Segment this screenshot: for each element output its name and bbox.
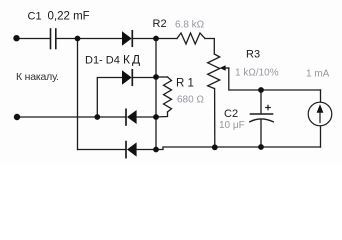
wire: row C junction to diode D3 xyxy=(97,116,126,118)
wire: vertical bus at x=156 from row A to bottom rail xyxy=(155,39,157,150)
capacitor C2 top plate xyxy=(251,113,273,115)
wire: D4 to bus bottom junction xyxy=(137,149,156,151)
wire: J1 to diode D1 xyxy=(78,38,123,40)
svg-text:D1- D4: D1- D4 xyxy=(85,55,120,67)
wire: C2 top lead xyxy=(260,90,262,114)
potentiometer R3 body xyxy=(208,54,220,89)
junction row B / bus xyxy=(153,74,159,80)
resistor R1 bottom stub to row C junction xyxy=(156,112,168,117)
diode D3 xyxy=(126,109,137,125)
label: capacitor C2 polarity plus sign xyxy=(265,105,271,111)
resistor R1 xyxy=(164,77,172,112)
wire: R3 bottom lead down to bottom rail xyxy=(214,89,216,148)
meter M1 arrow xyxy=(317,104,324,122)
wire: row B corner at x=97 and vertical down to row C junction xyxy=(97,78,122,118)
resistor R2 xyxy=(177,33,205,44)
capacitor C2 curved bottom plate xyxy=(250,119,273,122)
svg-text:680 Ω: 680 Ω xyxy=(177,95,204,106)
wire: vertical bus at x=77 from J1 down to bottom-left corner xyxy=(77,39,79,150)
svg-text:R2: R2 xyxy=(153,18,167,30)
svg-text:0,22 mF: 0,22 mF xyxy=(48,11,90,23)
svg-text:10 μF: 10 μF xyxy=(219,120,245,131)
svg-text:C1: C1 xyxy=(28,11,42,23)
diode D4 xyxy=(126,142,137,158)
capacitor C1 xyxy=(51,29,56,49)
svg-text:К накалу.: К накалу. xyxy=(16,71,59,83)
junction J2 xyxy=(153,36,159,42)
svg-text:R 1: R 1 xyxy=(176,78,194,90)
svg-text:1 kΩ/10%: 1 kΩ/10% xyxy=(235,68,279,79)
junction row C / bus xyxy=(153,114,159,120)
diode D2 xyxy=(122,70,132,85)
svg-text:R3: R3 xyxy=(246,49,260,61)
wire: J2 to resistor R2 xyxy=(156,38,177,40)
meter M1 top lead and corner xyxy=(320,90,322,102)
node: input terminal top xyxy=(13,35,19,41)
wire: C2 bottom lead xyxy=(260,120,262,147)
wire: top rail from input terminal to C1 xyxy=(17,38,51,40)
node: input terminal bottom xyxy=(14,114,20,120)
diode D1 xyxy=(122,31,132,46)
junction bottom rail / bus xyxy=(153,147,159,153)
junction J1 xyxy=(75,36,81,42)
junction C2 bottom on rail xyxy=(258,144,264,150)
wire: D1 to junction J2 xyxy=(132,38,156,40)
svg-text:1 mA: 1 mA xyxy=(306,69,330,80)
svg-text:6.8 kΩ: 6.8 kΩ xyxy=(175,20,205,31)
meter M1 circle xyxy=(308,102,332,126)
wire: D2 to junction on bus xyxy=(132,77,156,79)
svg-text:КД: КД xyxy=(123,53,142,67)
junction row C at x=97 xyxy=(94,114,100,120)
meter M1 bottom lead xyxy=(320,126,322,147)
junction C2 top on wiper rail xyxy=(258,87,264,93)
svg-text:C2: C2 xyxy=(224,108,238,120)
wire: bottom-left rail row D xyxy=(78,149,127,151)
potentiometer R3 wiper arrow xyxy=(220,65,229,70)
wire: wiper to corner down to top-right rail xyxy=(229,68,321,90)
junction R3 bottom on rail xyxy=(212,144,218,150)
wire: row C from input terminal to junction at x=97 xyxy=(17,116,97,118)
resistor R1 top stub xyxy=(156,76,168,78)
wire: bottom rail jog and run to the right xyxy=(156,147,321,150)
wire: R2 to top-right corner, down to R3 xyxy=(205,39,214,55)
wire: D3 to bus junction xyxy=(137,116,156,118)
wire: C1 to junction J1 xyxy=(56,38,78,40)
